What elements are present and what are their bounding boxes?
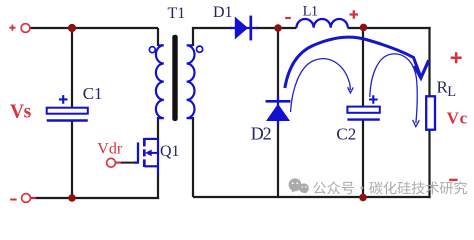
junction dot top C1 bbox=[68, 24, 76, 32]
junction dot D1-D2-L1 node bbox=[274, 24, 282, 32]
svg-text:Vdr: Vdr bbox=[97, 140, 123, 157]
wire: right column below RL bbox=[428, 130, 430, 199]
terminal + input top bbox=[21, 24, 30, 33]
svg-text:Vc: Vc bbox=[447, 109, 468, 128]
junction dot L1-C2 node bbox=[360, 24, 368, 32]
svg-text:Vs: Vs bbox=[10, 102, 32, 123]
transformer secondary dot bbox=[197, 46, 203, 52]
C1 plus polarity bbox=[59, 95, 68, 104]
plus mark L1 right bbox=[350, 10, 358, 18]
minus mark L1 left bbox=[285, 17, 291, 19]
wire: Q1 gate lead bbox=[115, 162, 135, 164]
wire: primary winding top drop bbox=[157, 28, 159, 46]
current arrow inner right bbox=[370, 54, 420, 127]
svg-text:L1: L1 bbox=[303, 3, 318, 19]
terminal - input bottom bbox=[22, 194, 31, 203]
wire: right column above RL bbox=[428, 27, 430, 97]
inductor L1 bbox=[297, 19, 348, 28]
terminal stub Vdr bbox=[115, 162, 121, 164]
wire: secondary winding top drop bbox=[192, 28, 194, 46]
svg-text:D2: D2 bbox=[251, 124, 271, 144]
wire: secondary bottom rail bbox=[193, 196, 431, 198]
wire: C2 bottom branch bbox=[362, 120, 364, 198]
svg-text:D1: D1 bbox=[213, 4, 233, 21]
wire: Q1 source to bottom rail bbox=[157, 174, 159, 199]
capacitor C2 bottom plate bbox=[347, 118, 379, 120]
wire: D2 bottom branch bbox=[277, 120, 279, 197]
wire: primary bottom rail bbox=[31, 197, 159, 199]
resistor RL bbox=[426, 96, 435, 129]
diode D2 bbox=[266, 96, 291, 125]
svg-text:C2: C2 bbox=[336, 125, 356, 144]
wire: D1 cathode to L1 bbox=[256, 27, 297, 29]
watermark text bbox=[313, 181, 467, 194]
C2 plus polarity bbox=[369, 95, 378, 104]
svg-text:Q1: Q1 bbox=[160, 143, 180, 160]
transformer T1 core bbox=[172, 35, 177, 121]
wire: C1 top branch bbox=[71, 28, 73, 108]
current arrow big loop bbox=[285, 37, 429, 88]
capacitor C1 top plate bbox=[47, 108, 88, 114]
wire: secondary winding bottom drop bbox=[192, 117, 194, 197]
svg-text:C1: C1 bbox=[83, 84, 103, 103]
plus mark output top bbox=[451, 52, 462, 63]
junction dot bottom C2 bbox=[359, 194, 367, 202]
wire: D2 top branch bbox=[277, 28, 279, 101]
minus mark output bottom bbox=[449, 179, 457, 181]
terminal Vdr bbox=[107, 158, 116, 167]
watermark icon wechat bbox=[289, 178, 309, 193]
mosfet Q1 bbox=[134, 138, 158, 174]
minus mark input bottom bbox=[10, 199, 16, 201]
wire: C1 bottom branch bbox=[71, 121, 73, 199]
transformer T1 secondary winding bbox=[187, 45, 195, 118]
transformer primary dot bbox=[149, 47, 155, 53]
capacitor C2 top plate bbox=[347, 107, 379, 113]
current arrow inner left bbox=[291, 59, 354, 112]
svg-text:L: L bbox=[447, 84, 456, 100]
junction dot bottom C1 bbox=[68, 194, 76, 202]
transformer T1 primary winding bbox=[156, 45, 164, 118]
wire: top-left rail bbox=[31, 27, 159, 29]
wire: primary winding bottom to Q1 drain bbox=[157, 117, 159, 140]
capacitor C1 bottom plate bbox=[47, 119, 88, 121]
svg-text:T1: T1 bbox=[168, 5, 186, 22]
wire: L1 to right corner bbox=[348, 27, 431, 29]
wire: secondary top rail to D1 bbox=[192, 27, 232, 29]
plus mark input top bbox=[9, 25, 15, 31]
diode D1 bbox=[230, 16, 258, 41]
terminal stub bottom bbox=[30, 197, 36, 199]
wire: C2 top branch bbox=[362, 28, 364, 107]
